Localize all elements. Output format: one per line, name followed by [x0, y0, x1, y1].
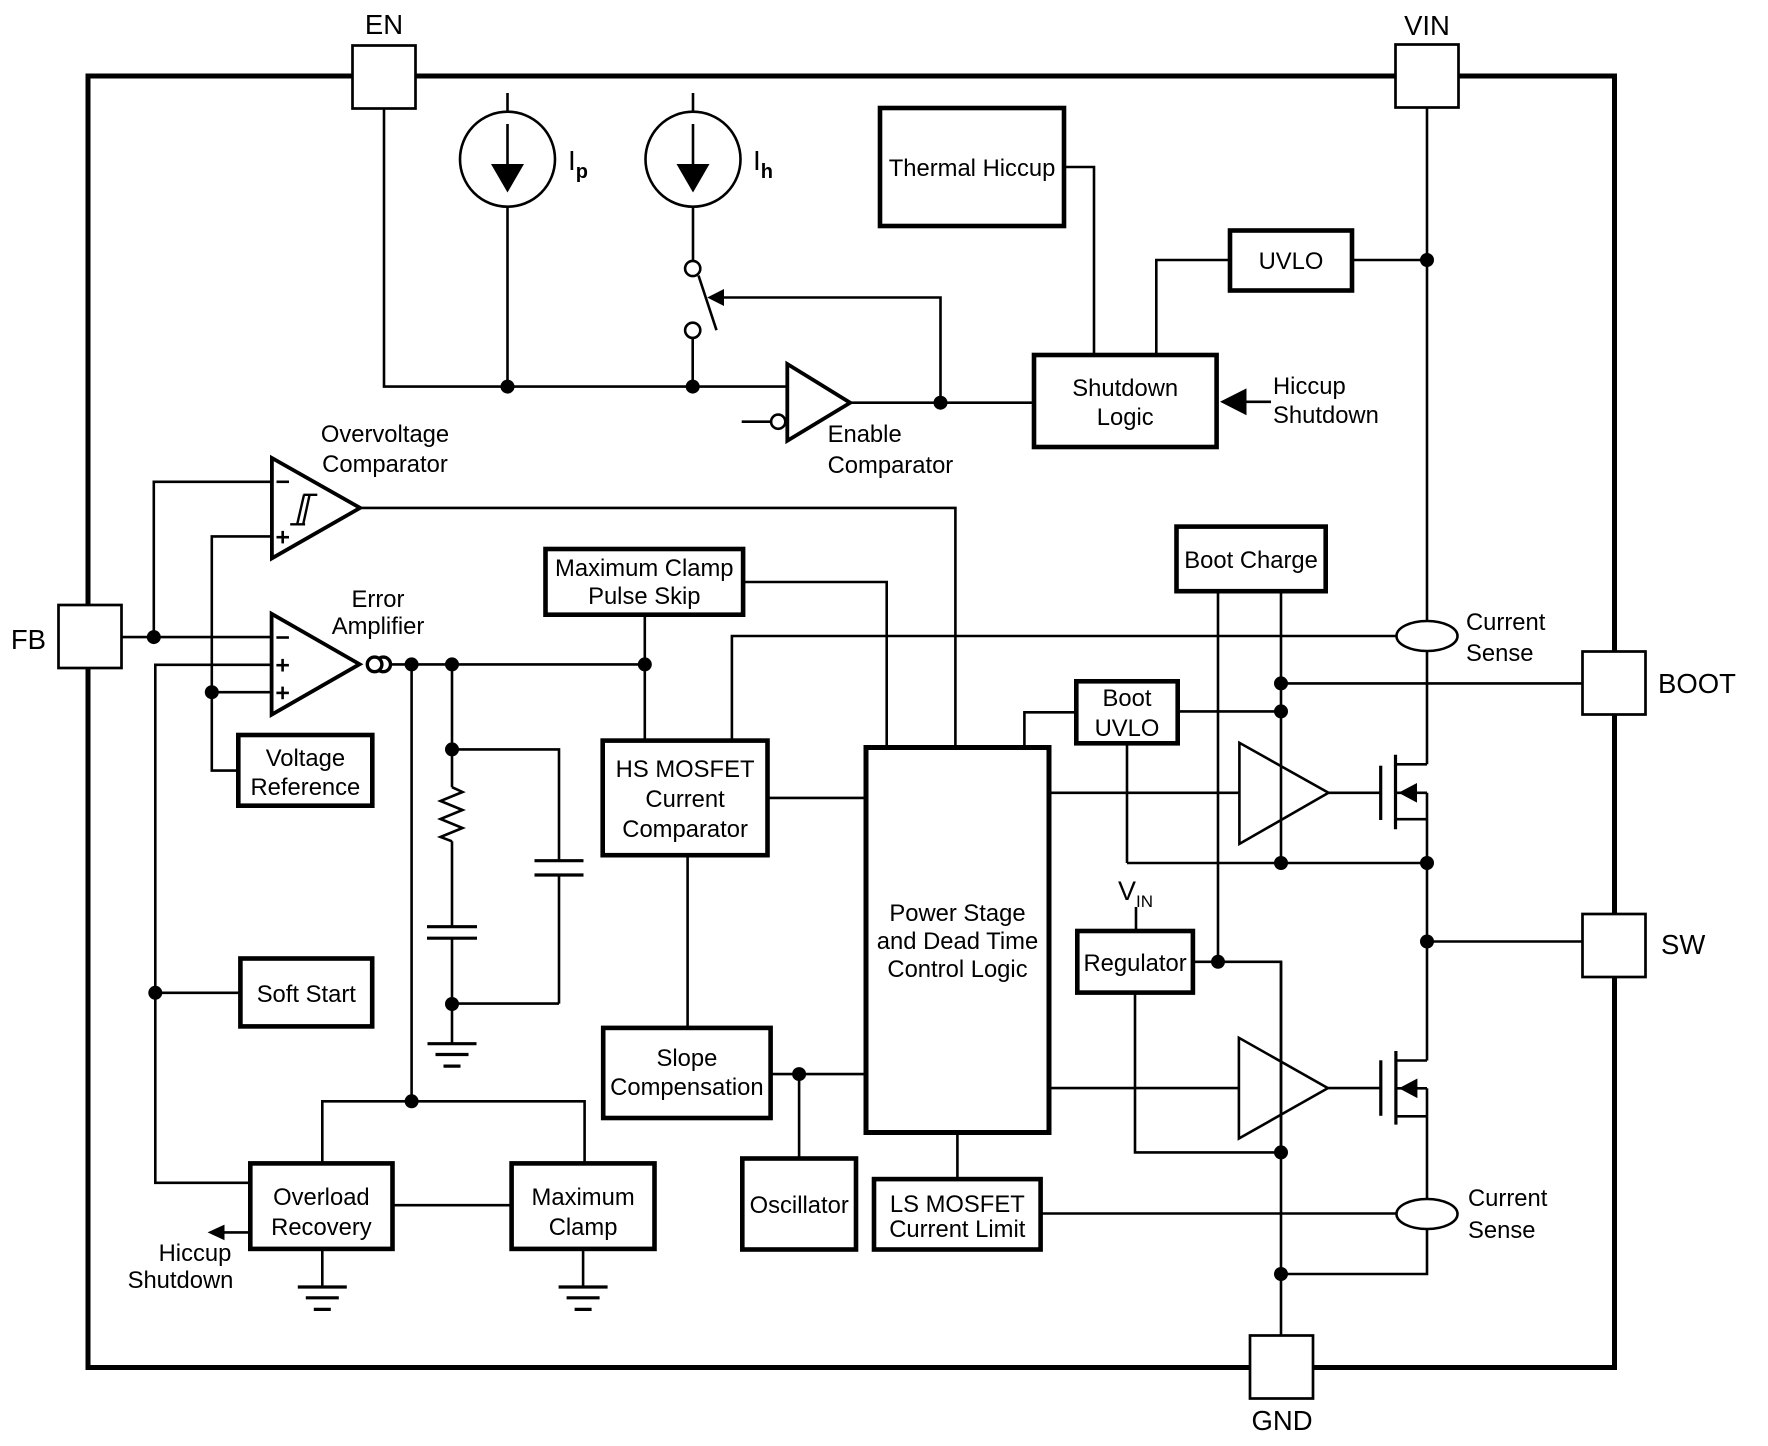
svg-text:Maximum Clamp: Maximum Clamp — [555, 555, 734, 582]
wire soft start tap — [155, 991, 240, 994]
switch S1 (hiccup current) — [685, 261, 716, 387]
pin EN — [353, 9, 416, 109]
svg-text:Shutdown: Shutdown — [1072, 375, 1178, 402]
svg-text:BOOT: BOOT — [1658, 668, 1736, 699]
wire comp parallel branch — [452, 749, 559, 860]
svg-text:Shutdown: Shutdown — [1273, 402, 1379, 429]
svg-text:Recovery: Recovery — [271, 1214, 372, 1241]
svg-text:Logic: Logic — [1097, 404, 1154, 431]
svg-text:UVLO: UVLO — [1095, 715, 1160, 742]
node junction Ip-bus — [501, 380, 515, 394]
transistor Q2 LS MOSFET — [1381, 1051, 1427, 1125]
svg-text:Slope: Slope — [656, 1045, 717, 1072]
node junction comp B — [445, 657, 459, 671]
node junction comp C — [638, 657, 652, 671]
block Boot UVLO — [1076, 681, 1177, 743]
current sense LS (ellipse) — [1397, 1199, 1458, 1229]
svg-text:Sense: Sense — [1468, 1217, 1535, 1244]
buffer HS gate driver — [1239, 743, 1328, 844]
block Maximum Clamp Pulse Skip — [546, 549, 744, 615]
svg-text:Oscillator: Oscillator — [750, 1192, 849, 1219]
svg-text:GND: GND — [1251, 1405, 1312, 1436]
svg-text:Boot: Boot — [1103, 685, 1152, 712]
node junction SW pin tap — [1420, 935, 1434, 949]
node junction comp rail — [405, 1094, 419, 1108]
wire reference to error amp lower + input — [212, 691, 272, 694]
wire to SW pin — [1427, 940, 1583, 943]
wire LS driver to gate — [1328, 1087, 1381, 1090]
IC boundary border — [88, 76, 1615, 1368]
svg-text:Pulse Skip: Pulse Skip — [588, 583, 700, 610]
node junction SW-GND leg — [1274, 856, 1288, 870]
wire HS comparator to slope compensation — [686, 855, 689, 1028]
wire UVLO to VIN rail — [1352, 259, 1427, 262]
svg-text:FB: FB — [11, 624, 46, 655]
svg-text:Current Limit: Current Limit — [889, 1216, 1026, 1243]
wire thermal hiccup to shutdown logic — [1064, 167, 1094, 355]
wire GND leg — [1280, 962, 1283, 1336]
svg-text:Boot Charge: Boot Charge — [1184, 547, 1318, 574]
wire slope compensation to power stage — [771, 1073, 866, 1076]
ground (maximum clamp) — [559, 1249, 608, 1310]
node junction reference to error amp — [205, 685, 219, 699]
svg-text:UVLO: UVLO — [1259, 248, 1324, 275]
ground (compensation) — [428, 1004, 477, 1066]
capacitor C2 (high freq) — [535, 861, 584, 1004]
node junction slope-oscillator — [792, 1067, 806, 1081]
block Regulator — [1077, 931, 1193, 993]
pin BOOT — [1583, 652, 1737, 715]
resistor R1 (compensation) — [441, 787, 463, 841]
wire hiccup shutdown output arrow — [208, 1225, 251, 1241]
wire HS comparator output to power stage — [768, 797, 867, 800]
pin FB — [11, 605, 122, 668]
node junction VIN-UVLO — [1420, 253, 1434, 267]
comparator U1 Enable Comparator — [742, 364, 851, 441]
block Soft Start — [240, 959, 372, 1027]
transistor Q1 HS MOSFET — [1381, 755, 1427, 863]
svg-text:Comparator: Comparator — [828, 452, 954, 479]
pin VIN — [1396, 10, 1459, 108]
pin GND — [1250, 1336, 1313, 1437]
wire comp to overload/max clamp rail — [410, 664, 413, 1101]
wire EN pin to bus — [384, 109, 787, 387]
svg-text:Reference: Reference — [251, 774, 361, 801]
svg-text:HS MOSFET: HS MOSFET — [616, 756, 755, 783]
svg-text:Comparator: Comparator — [322, 451, 448, 478]
node junction regulator-boot charge — [1211, 955, 1225, 969]
wire max clamp pulse skip to power stage — [743, 582, 887, 748]
node junction FB — [147, 630, 161, 644]
wire HS driver to gate — [1329, 791, 1381, 794]
svg-text:VIN: VIN — [1404, 10, 1450, 41]
wire resistor to capacitor — [451, 841, 454, 926]
wire VIN rail down to HS drain — [1426, 108, 1429, 765]
ground (overload recovery) — [298, 1249, 347, 1310]
node junction RC top — [445, 742, 459, 756]
wire UVLO to shutdown logic — [1156, 260, 1230, 355]
wire boot charge right leg to SW node — [1280, 591, 1283, 863]
block Power Stage and Dead Time Control Logic — [866, 748, 1049, 1133]
svg-text:Thermal Hiccup: Thermal Hiccup — [889, 155, 1056, 182]
wire HS current sense to HS comparator — [732, 636, 1396, 741]
wire oscillator to slope node — [798, 1074, 801, 1158]
wire LS current limit to LS current sense — [1041, 1212, 1396, 1215]
svg-text:Overload: Overload — [273, 1184, 370, 1211]
block Voltage Reference — [238, 735, 372, 806]
wire boot charge left leg to regulator node — [1217, 591, 1220, 962]
svg-text:Voltage: Voltage — [266, 745, 345, 772]
wire power stage to HS driver — [1049, 791, 1239, 794]
svg-text:Control Logic: Control Logic — [887, 956, 1027, 983]
node junction enable output — [934, 396, 948, 410]
wire comp rail to overload recovery / maximum clamp — [322, 1101, 584, 1163]
svg-text:Enable: Enable — [828, 421, 902, 448]
svg-text:LS MOSFET: LS MOSFET — [890, 1191, 1025, 1218]
wire switch control with arrowhead — [707, 289, 940, 403]
block Thermal Hiccup — [880, 108, 1064, 226]
current source Ih — [646, 93, 741, 261]
svg-text:and Dead Time: and Dead Time — [877, 928, 1038, 955]
svg-text:Regulator: Regulator — [1084, 950, 1187, 977]
svg-text:Current: Current — [645, 786, 725, 813]
svg-text:Clamp: Clamp — [549, 1214, 618, 1241]
capacitor C1 (compensation) — [427, 927, 477, 1004]
node junction Ih-bus — [686, 380, 700, 394]
wire reference to OV comparator + and error amp + — [212, 536, 272, 770]
svg-text:Hiccup: Hiccup — [1273, 373, 1346, 400]
node junction boot UVLO wire — [1274, 704, 1288, 718]
svg-text:Maximum: Maximum — [532, 1184, 635, 1211]
wire cap branch to ground node — [452, 1002, 559, 1005]
wire COMP node (error amp output) — [391, 663, 645, 666]
buffer LS gate driver — [1239, 1038, 1328, 1139]
wire error amp middle + input to soft start rail — [155, 665, 271, 1183]
wire boot UVLO output — [1178, 710, 1281, 713]
wire SW node down to LS drain — [1426, 863, 1429, 1061]
svg-text:Compensation: Compensation — [610, 1074, 763, 1101]
wire comp to RC network — [451, 664, 454, 787]
wire power stage to LS current limit — [956, 1133, 959, 1180]
svg-text:SW: SW — [1661, 929, 1705, 960]
node junction LS rail — [1274, 1145, 1288, 1159]
node junction comp ground — [445, 997, 459, 1011]
wire FB to error amp inverting input — [122, 636, 272, 639]
wire boot UVLO input from power stage — [1024, 712, 1076, 747]
comparator U2 Overvoltage Comparator — [272, 458, 360, 558]
svg-text:Overvoltage: Overvoltage — [321, 421, 449, 448]
wire SW node horizontal — [1127, 862, 1427, 865]
block Boot Charge — [1177, 527, 1326, 592]
wire Hiccup Shutdown input arrow — [1220, 388, 1271, 415]
wire overvoltage comparator output to power stage — [360, 508, 955, 748]
current source Ip — [460, 93, 555, 387]
svg-text:Sense: Sense — [1466, 640, 1533, 667]
wire enable comparator output to shutdown logic — [850, 401, 1034, 404]
node junction SW node — [1420, 856, 1434, 870]
svg-text:Power Stage: Power Stage — [889, 900, 1025, 927]
block Maximum Clamp — [512, 1163, 655, 1249]
svg-text:Soft Start: Soft Start — [257, 981, 357, 1008]
svg-text:Hiccup: Hiccup — [159, 1240, 232, 1267]
wire LS current sense to GND leg — [1281, 1230, 1427, 1275]
svg-text:Comparator: Comparator — [622, 816, 748, 843]
node junction GND leg — [1274, 1267, 1288, 1281]
block HS MOSFET Current Comparator — [603, 741, 768, 856]
block Shutdown Logic — [1034, 355, 1217, 447]
current sense HS (ellipse) — [1397, 621, 1458, 651]
block LS MOSFET Current Limit — [874, 1179, 1041, 1249]
error amplifier output double circles — [367, 657, 390, 672]
svg-text:Error: Error — [352, 586, 405, 613]
svg-text:Amplifier: Amplifier — [332, 613, 425, 640]
node junction BOOT wire — [1274, 676, 1288, 690]
wire FB to overvoltage comparator inverting input — [154, 482, 272, 637]
wire to BOOT pin — [1281, 682, 1583, 685]
svg-text:Current: Current — [1468, 1185, 1548, 1212]
wire regulator output to LS driver rail — [1193, 962, 1281, 1153]
wire max clamp pulse skip to HS comparator — [643, 615, 646, 741]
wire VIN label stub — [1135, 907, 1138, 931]
block UVLO — [1230, 231, 1352, 291]
wire power stage to LS driver — [1049, 1087, 1239, 1090]
pin SW — [1583, 914, 1706, 977]
wire overload recovery to maximum clamp — [393, 1204, 512, 1207]
op-amp U3 Error Amplifier — [272, 614, 360, 715]
wire LS source to current sense — [1426, 1116, 1429, 1199]
svg-text:EN: EN — [365, 9, 403, 40]
wire boot UVLO bottom to SW wire — [1126, 743, 1129, 863]
svg-text:Current: Current — [1466, 609, 1546, 636]
block Overload Recovery — [250, 1163, 392, 1249]
block Oscillator — [742, 1159, 856, 1250]
block Slope Compensation — [603, 1028, 770, 1118]
node junction comp A — [405, 657, 419, 671]
svg-text:Shutdown: Shutdown — [128, 1267, 234, 1294]
node junction soft start — [148, 986, 162, 1000]
wire regulator bottom return — [1135, 993, 1281, 1153]
